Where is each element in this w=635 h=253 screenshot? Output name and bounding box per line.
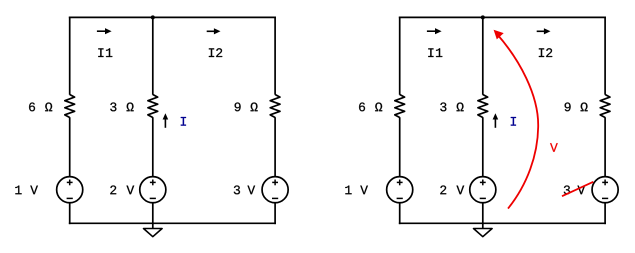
wire: branch-3 lower segment (right) xyxy=(604,203,606,225)
wire: branch-1 upper segment (right) xyxy=(399,17,401,95)
label: value 2 V for V2 (right) xyxy=(440,186,464,195)
ground symbol (left) xyxy=(144,223,163,237)
current arrow I up along branch-2 (right) xyxy=(493,113,499,128)
label: value 1 V for V1 (right) xyxy=(345,186,368,195)
annotation: red strike line through 3 V label (right) xyxy=(562,182,593,196)
wire: branch-3 upper segment (left) xyxy=(274,17,276,95)
resistor R3 9 ohm (left) xyxy=(270,95,280,118)
resistor R1 6 ohm (left) xyxy=(65,95,75,118)
voltage source V2 (left) xyxy=(140,177,166,203)
wire: top bus node (left circuit) xyxy=(69,16,276,18)
resistor R2 3 ohm (left) xyxy=(148,95,158,118)
wire: branch-3 lower segment (left) xyxy=(274,203,276,225)
label: value 2 V for V2 (left) xyxy=(110,186,134,195)
voltage source V1 (left) xyxy=(57,177,83,203)
voltage source V2 (right) xyxy=(470,177,496,203)
label: current I (right) xyxy=(511,117,516,126)
label: value 9 Ohm for R3 (left) xyxy=(235,103,258,112)
label: value 3 V for V3 (left) xyxy=(234,186,255,195)
voltage source V1 (right) xyxy=(387,177,413,203)
wire: branch-1 segment between R1 and V1 (right) xyxy=(399,117,401,177)
wire: branch-2 lower segment (right) xyxy=(482,203,484,225)
current arrow I1 (left) xyxy=(97,28,112,34)
resistor R1 6 ohm (right) xyxy=(395,95,405,118)
label: value 3 Ohm for R2 (left) xyxy=(110,103,133,112)
label: value 9 Ohm for R3 (right) xyxy=(565,103,588,112)
voltage source V3 (left) xyxy=(262,177,288,203)
ground symbol (right) xyxy=(474,223,493,237)
wire: branch-2 lower segment (left) xyxy=(152,203,154,225)
voltage source V3 (right) xyxy=(592,177,618,203)
node: junction dot on top bus (right) xyxy=(481,15,485,19)
wire: top bus node (right circuit) xyxy=(399,16,606,18)
label: voltage V (right) xyxy=(550,143,558,152)
annotation: red curved voltage arrow V (right) xyxy=(494,30,539,209)
current arrow I2 (left) xyxy=(207,28,221,34)
wire: branch-3 segment between R3 and V3 (right) xyxy=(604,117,606,177)
label: current I (left) xyxy=(181,117,186,126)
label: current I2 (left) xyxy=(209,48,222,57)
resistor R3 9 ohm (right) xyxy=(600,95,610,118)
label: value 3 Ohm for R2 (right) xyxy=(440,103,463,112)
wire: branch-2 upper segment (left) xyxy=(152,17,154,94)
label: current I1 (right) xyxy=(428,48,442,57)
label: value 6 Ohm for R1 (right) xyxy=(359,103,382,112)
current arrow I up along branch-2 (left) xyxy=(163,113,169,128)
current arrow I2 (right) xyxy=(537,28,551,34)
label: current I1 (left) xyxy=(98,48,112,57)
wire: bottom bus node (left) xyxy=(69,222,276,224)
node: junction dot on top bus (left) xyxy=(151,15,155,19)
wire: branch-2 segment between R2 and V2 (right) xyxy=(482,117,484,177)
wire: branch-1 segment between R1 and V1 (left) xyxy=(69,117,71,177)
wire: branch-2 segment between R2 and V2 (left) xyxy=(152,117,154,177)
label: value 3 V for V3 (right) xyxy=(564,186,585,195)
label: value 6 Ohm for R1 (left) xyxy=(29,103,52,112)
label: value 1 V for V1 (left) xyxy=(15,186,38,195)
wire: branch-1 upper segment (left) xyxy=(69,17,71,95)
current arrow I1 (right) xyxy=(427,28,442,34)
wire: branch-2 upper segment (right) xyxy=(482,17,484,94)
label: current I2 (right) xyxy=(539,48,552,57)
wire: branch-3 segment between R3 and V3 (left) xyxy=(274,117,276,177)
wire: branch-3 upper segment (right) xyxy=(604,17,606,95)
wire: branch-1 lower segment (left) xyxy=(69,203,71,225)
resistor R2 3 ohm (right) xyxy=(478,95,488,118)
wire: branch-1 lower segment (right) xyxy=(399,203,401,225)
wire: bottom bus node (right) xyxy=(399,222,606,224)
